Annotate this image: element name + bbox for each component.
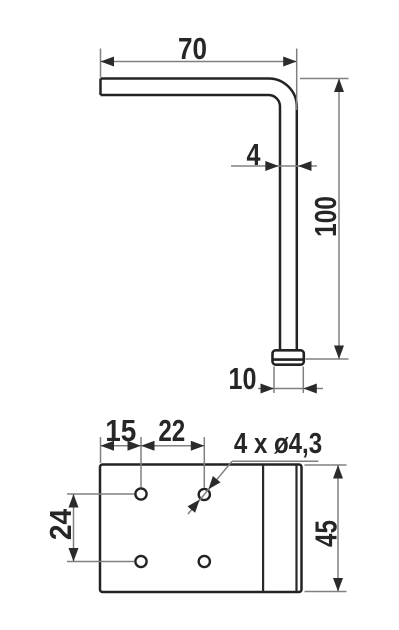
svg-text:45: 45 — [309, 520, 344, 547]
plate plan view: bend line right — [295, 465, 297, 592]
dimension 100: extension lines — [300, 79, 349, 360]
hole callout: leader arrowheads — [208, 476, 220, 489]
svg-text:22: 22 — [158, 413, 185, 448]
svg-text:24: 24 — [44, 508, 79, 540]
dimension 4 (thickness): dimension line — [231, 165, 317, 167]
svg-text:15: 15 — [105, 413, 136, 448]
dimension 100: dimension line — [338, 79, 340, 360]
svg-text:4: 4 — [247, 136, 261, 171]
bracket side view: L-profile outline — [101, 79, 297, 351]
svg-text:100: 100 — [308, 196, 342, 237]
plate plan view: outline — [100, 465, 302, 593]
dimension 24: dimension line — [73, 494, 75, 562]
bracket side view: foot pad — [273, 350, 304, 364]
svg-text:10: 10 — [229, 360, 257, 395]
hole bottom-right — [199, 556, 210, 567]
dimension 22: arrowheads — [141, 441, 155, 451]
hole top-left — [135, 488, 146, 499]
hole bottom-left — [135, 556, 146, 567]
dimension 70: extension lines — [101, 49, 297, 111]
dimension 70: dimension line — [101, 61, 297, 63]
dimension 4: arrowheads — [265, 161, 279, 171]
dimension 70: arrowheads — [101, 57, 115, 67]
plate plan view: bend line left — [262, 465, 264, 592]
dimension 24: extension lines — [67, 494, 135, 562]
hole callout: leader line — [188, 461, 319, 514]
dimensions 15 and 22: dimension line — [101, 445, 205, 447]
dimension 10: arrowheads — [261, 384, 275, 394]
dimension 45: arrowheads — [333, 465, 343, 479]
dimension 10: dimension line — [258, 388, 323, 390]
dimension 15: arrowheads — [101, 441, 115, 451]
hole top-right — [199, 489, 210, 500]
dimension 45: extension lines — [305, 465, 347, 592]
svg-text:70: 70 — [178, 32, 207, 67]
dimension 10: extension lines — [258, 367, 323, 394]
dimension 45: dimension line — [337, 465, 339, 592]
dimensions 15 and 22: extension lines — [101, 437, 205, 488]
dimension 24: arrowheads — [69, 494, 79, 508]
dimension 100: arrowheads — [334, 79, 344, 93]
svg-text:4 x ø4,3: 4 x ø4,3 — [234, 427, 322, 460]
